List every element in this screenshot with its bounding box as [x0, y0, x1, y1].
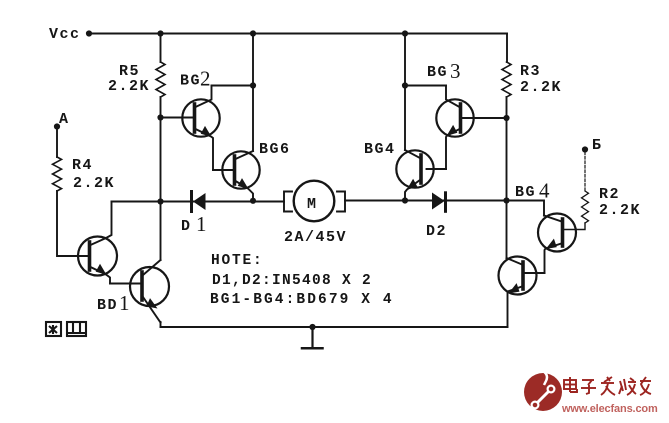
- svg-text:BG: BG: [180, 73, 201, 90]
- transistor BG4c upper right: [538, 214, 576, 274]
- node junction x405 y85: [402, 82, 408, 88]
- svg-text:www.elecfans.com: www.elecfans.com: [561, 403, 658, 415]
- svg-text:R2: R2: [599, 186, 620, 203]
- node BG4 emitter junction x405: [402, 197, 408, 203]
- wire Vcc rail right corner down to R3: [506, 34, 508, 63]
- wire BG4b emitter to bottom rail: [507, 292, 509, 328]
- transistor BG3: [436, 86, 473, 170]
- wire bottom rail: [161, 326, 508, 328]
- terminal B dot: [582, 146, 588, 152]
- wire top Vcc rail: [89, 33, 507, 35]
- transistor BG1: [78, 202, 117, 284]
- node D2 wire junction x506: [503, 197, 509, 203]
- svg-text:A: A: [59, 111, 70, 128]
- terminal A dot: [54, 123, 60, 129]
- wire D2 node right to BG4c collector: [507, 201, 545, 216]
- svg-text:Vcc: Vcc: [49, 26, 81, 43]
- wire x160 down to D1 wire: [160, 118, 162, 202]
- wire BG3 collector horizontal to x405: [405, 85, 446, 87]
- ground: [302, 324, 323, 348]
- watermark logo disc: [524, 371, 562, 411]
- node junction rail x160: [157, 30, 163, 36]
- wire BG1 emitter to BD1 base: [110, 283, 142, 285]
- label figure caption 图 四: [46, 322, 86, 336]
- wire B down to R2 dashed thin: [584, 152, 586, 191]
- wire R4 to BG1 base: [57, 191, 90, 256]
- transistor BG4a: [396, 150, 433, 201]
- wire BG3 emitter to BG4a base: [427, 168, 447, 170]
- svg-text:2.2K: 2.2K: [599, 202, 641, 219]
- wire x405 rail down to BG4a collector: [404, 34, 406, 151]
- wire A down to R4: [56, 127, 58, 158]
- svg-text:R3: R3: [520, 63, 541, 80]
- wire x506 down to D2 wire: [506, 118, 508, 201]
- transistor BD1: [130, 260, 169, 323]
- node BG2 base junction: [157, 114, 163, 120]
- wire BG3 base: [461, 117, 507, 119]
- wire x160 down to BD1 collector: [160, 202, 162, 261]
- svg-text:2A/45V: 2A/45V: [284, 229, 347, 246]
- wire R5 bottom to BG2 base node: [160, 97, 162, 118]
- watermark text dianzifashaoyou: [564, 377, 651, 395]
- wire BG2 emitter to BG6 base: [213, 169, 235, 171]
- node Vcc terminal dot: [86, 30, 92, 36]
- node junction x253 y85: [250, 82, 256, 88]
- node junction rail x405: [402, 30, 408, 36]
- svg-text:2: 2: [200, 67, 211, 91]
- svg-text:BD: BD: [97, 297, 118, 314]
- svg-text:3: 3: [450, 59, 461, 83]
- svg-text:1: 1: [119, 291, 130, 315]
- svg-text:2.2K: 2.2K: [108, 78, 150, 95]
- svg-text:BG6: BG6: [259, 141, 291, 158]
- svg-text:D2: D2: [426, 223, 447, 240]
- svg-text:D: D: [181, 218, 192, 235]
- wire BG2 collector top horizontal to x253: [212, 85, 254, 87]
- svg-text:M: M: [307, 196, 318, 213]
- transistor BG2: [182, 86, 219, 171]
- transistor BG6: [222, 151, 259, 201]
- motor M: [284, 181, 345, 222]
- wire motor right wire y200.5: [345, 200, 507, 202]
- wire motor left wire y201: [112, 201, 285, 203]
- transistor BG4b lower right: [499, 257, 537, 295]
- wire x253 rail down to BG6 collector: [252, 34, 254, 152]
- node D1 wire junction x160: [157, 198, 163, 204]
- svg-text:Б: Б: [592, 137, 603, 154]
- wire x506 down to BG4b collector: [506, 201, 508, 259]
- svg-text:HOTE:: HOTE:: [211, 253, 264, 269]
- svg-text:BG: BG: [427, 64, 448, 81]
- svg-text:2.2K: 2.2K: [73, 175, 115, 192]
- wire R3 bottom to BG3 base node: [506, 97, 508, 118]
- svg-text:BG1-BG4:BD679 X 4: BG1-BG4:BD679 X 4: [210, 292, 394, 308]
- wire BD1 emitter to bottom rail corner: [160, 322, 162, 327]
- svg-text:BG: BG: [515, 184, 536, 201]
- svg-text:2.2K: 2.2K: [520, 79, 562, 96]
- node junction rail x253: [250, 30, 256, 36]
- wire R2 to BG4c base: [563, 223, 586, 230]
- diode D1: [192, 192, 206, 212]
- resistor R5: [160, 34, 162, 63]
- resistor R4: [53, 157, 62, 191]
- svg-text:BG4: BG4: [364, 141, 396, 158]
- svg-text:4: 4: [539, 179, 550, 203]
- svg-text:R4: R4: [72, 157, 93, 174]
- svg-text:D1,D2:IN5408 X 2: D1,D2:IN5408 X 2: [212, 273, 372, 289]
- wire BG2 base: [161, 117, 195, 119]
- svg-text:1: 1: [196, 212, 207, 236]
- node BG6 emitter junction on motor wire: [250, 198, 256, 204]
- diode D2: [432, 193, 446, 212]
- wire BG4c emitter to BG4b base: [523, 272, 545, 274]
- resistor R2: [582, 191, 589, 223]
- node BG3 base junction: [503, 115, 509, 121]
- resistor R3: [502, 62, 511, 97]
